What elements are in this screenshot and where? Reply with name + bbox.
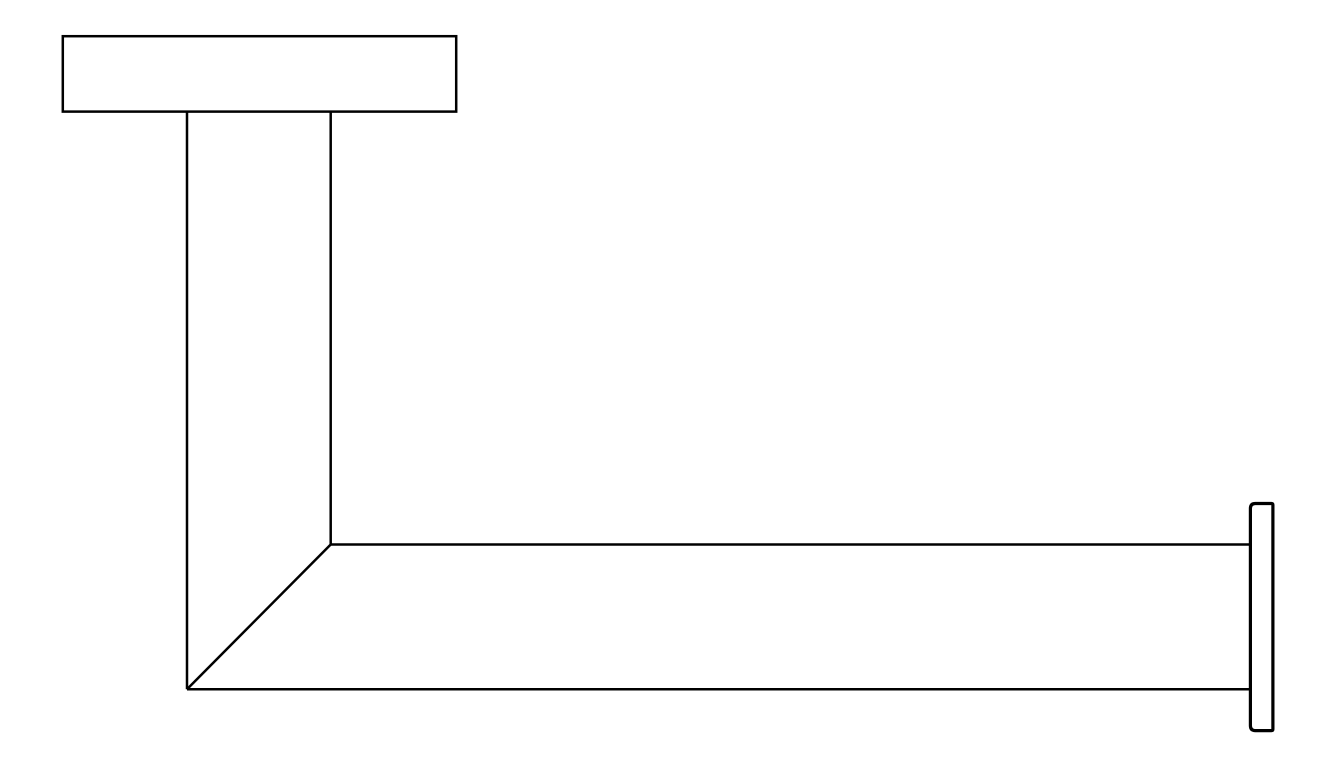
top horizontal wire	[331, 543, 1251, 546]
right vertical wire	[329, 112, 332, 545]
end cap rounded bar	[1250, 504, 1273, 731]
mounting plate rectangle	[63, 36, 456, 111]
bottom horizontal wire	[187, 688, 1250, 691]
diagonal wire	[187, 545, 331, 690]
left vertical wire	[186, 112, 189, 689]
